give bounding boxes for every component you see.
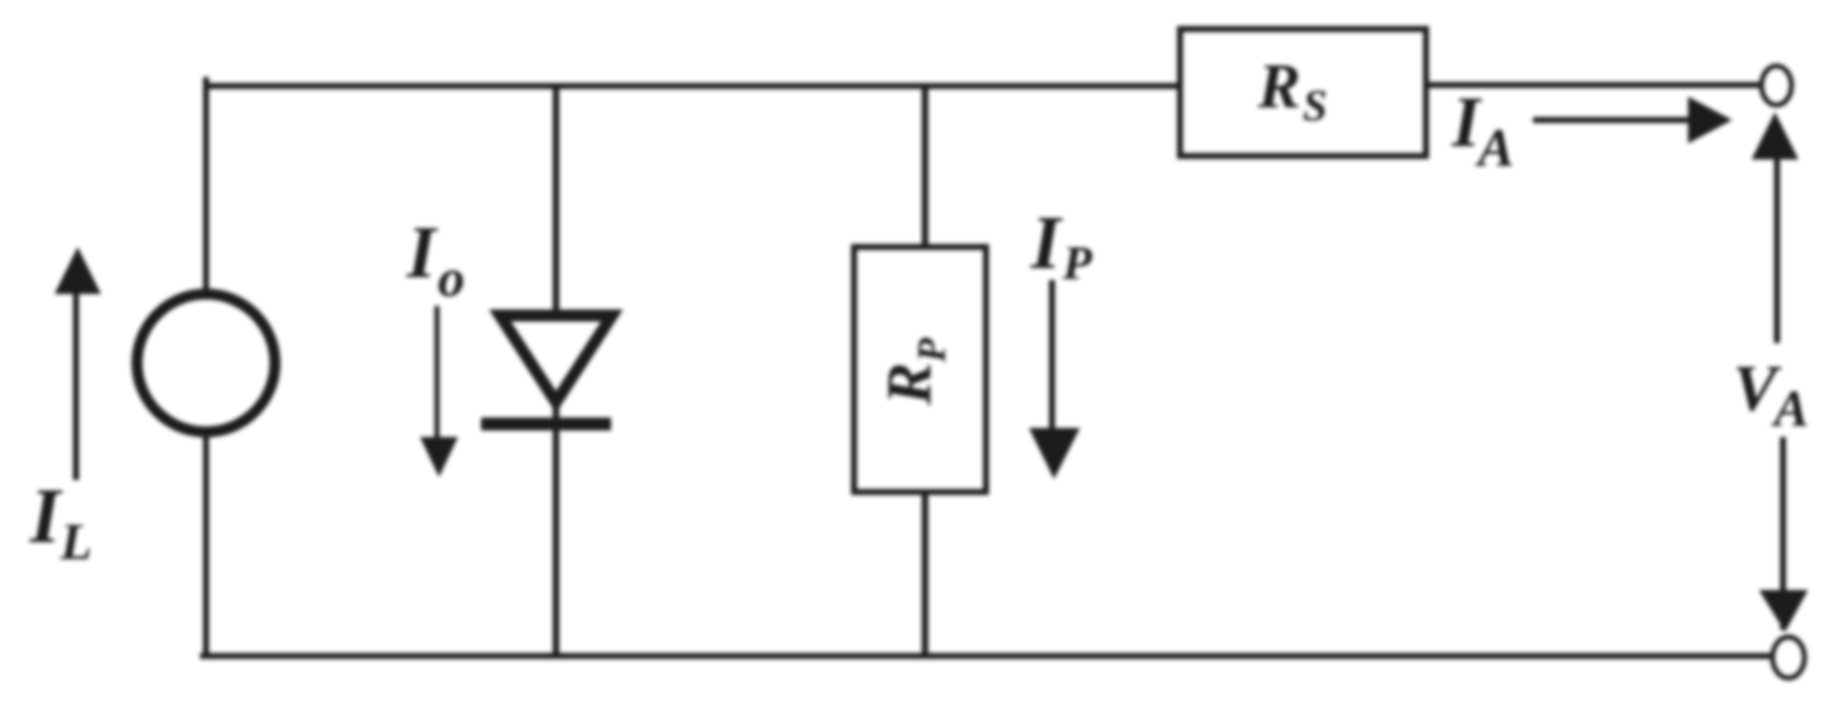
svg-text:VA: VA — [1733, 352, 1809, 438]
arrow I_A (right) — [1533, 97, 1732, 144]
resistor RP body — [854, 247, 986, 492]
arrow I_o (down) — [420, 306, 458, 477]
wire Rp branch bottom — [922, 492, 929, 656]
wire diode branch bottom — [553, 402, 560, 656]
current source I_L circle — [137, 294, 275, 432]
arrow I_L (up) — [55, 247, 102, 480]
svg-text:IA: IA — [1451, 82, 1514, 178]
resistor RS body — [1180, 29, 1426, 156]
wire top horizontal (left node to Rs) — [206, 83, 1181, 89]
label R_P (rotated) — [873, 337, 954, 406]
diode D cathode bar — [481, 418, 611, 431]
svg-text:Io: Io — [406, 212, 465, 308]
wire Rp branch top — [922, 86, 929, 246]
wire bottom rail — [200, 653, 1771, 659]
terminal bottom (-) — [1773, 637, 1805, 678]
svg-text:IP: IP — [1030, 201, 1093, 290]
wire Rs to output terminal — [1426, 82, 1762, 88]
svg-text:RS: RS — [1257, 50, 1327, 130]
wire top-left vertical drop to current source — [203, 77, 209, 291]
svg-text:IL: IL — [29, 472, 92, 571]
terminal top (+) — [1762, 66, 1792, 105]
arrow V_A lower half (down) — [1759, 437, 1808, 632]
arrow V_A upper half (up) — [1752, 112, 1799, 343]
wire current source to bottom rail — [203, 435, 209, 656]
svg-text:RP: RP — [873, 337, 954, 406]
wire diode branch top — [553, 86, 560, 312]
arrow I_P (down) — [1029, 280, 1080, 479]
diode D anode triangle — [500, 316, 612, 403]
